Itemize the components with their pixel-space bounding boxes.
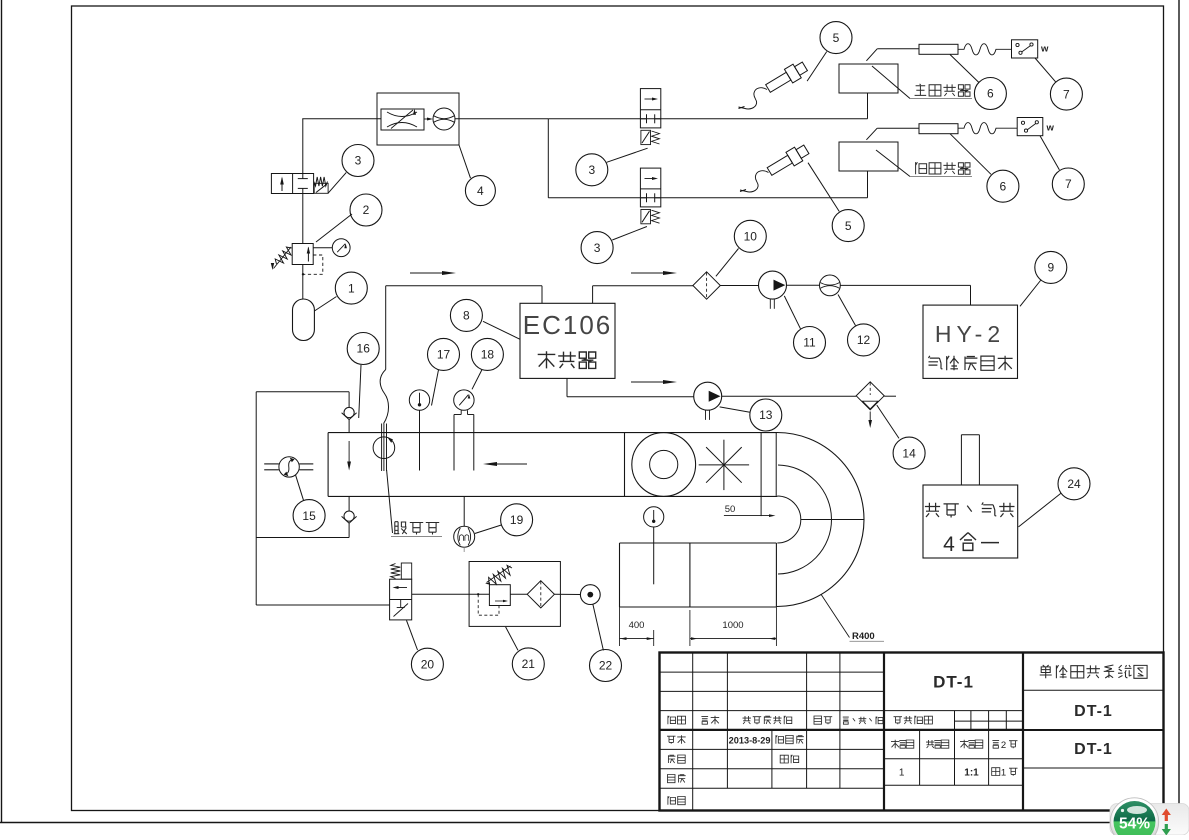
leader callout 20 [407,620,418,650]
svg-text:54%: 54% [1119,816,1150,833]
spark exciter box 7b [1017,118,1043,136]
sub burner label leader [876,150,910,177]
flow arrow A [410,272,452,274]
check valve 16 upper [348,392,350,408]
svg-text:3: 3 [588,163,595,177]
title block right lines [1023,689,1164,691]
node callout 21 [512,648,544,680]
impeller star [699,464,749,466]
wire pump11-meter12 [787,284,820,286]
node callout 3 [342,145,374,177]
svg-text:HY-2: HY-2 [935,321,1005,347]
filter of 21 [527,581,554,608]
main burner box [839,64,898,93]
wire filter10-pump11 [720,285,758,287]
wire loop mid return [256,537,349,539]
svg-text:6: 6 [1000,179,1007,193]
wire loop bottom to valve 20 [256,604,389,606]
node callout 17 [428,338,460,370]
node callout 6 [987,170,1019,202]
node callout 4 [465,176,495,206]
label sampling tube leader [387,470,393,533]
leader callout 5b [808,163,839,212]
leader callout 14 [877,405,899,438]
regulator 2 spring [275,247,291,264]
node callout 22 [590,650,622,682]
node callout 7 [1050,78,1082,110]
leader callout 7a [1035,58,1056,82]
regulator 2 pilot dashed [304,255,323,274]
wire pipe1 horizontal left part [302,118,381,120]
node callout 3 [576,154,608,186]
valve 3a body [271,174,313,194]
igniter resistor 6b [919,124,958,134]
valve 20 arrow [395,587,407,589]
valve 3b spring [652,131,660,144]
valve 3c arrow [645,178,656,180]
wire pipe2 [548,197,867,199]
label drawing title [1040,665,1052,678]
filter 10 [693,272,720,299]
valve 20 lower cell [394,604,409,617]
sampling tube swirl circle [373,437,395,459]
svg-text:24: 24 [1067,477,1081,491]
duct flow arrow [487,463,527,465]
flow valve 19 [463,496,465,526]
spark plug 5a [764,59,809,95]
igniter resistor 6a [919,44,958,54]
leader callout 1 [314,297,336,312]
gauge of regulator 2 [332,239,350,257]
duct section divider [624,433,626,497]
svg-text:w: w [1046,123,1055,134]
sheet bottom edge [0,822,1180,824]
valve 3a spring [314,177,328,186]
igniter coil 6b [958,123,1017,134]
node callout 24 [1058,468,1090,500]
leader callout 9 [1020,280,1041,306]
pump 13 [694,382,722,410]
svg-text:4: 4 [477,184,484,198]
leader callout 8 [483,321,520,339]
valve 3c body [640,168,660,207]
leader callout 17 [432,370,439,406]
node callout 2 [350,194,382,226]
valve 3b blocked ports [646,114,648,123]
label shenhe row [668,775,676,783]
wire drop to sub burner [867,171,869,198]
leader callout 3a [328,173,346,194]
svg-text:16: 16 [357,342,371,356]
leader callout 11 [784,296,800,329]
node callout 7 [1052,168,1084,200]
svg-text:1000: 1000 [722,620,743,631]
leader callout 6b [950,134,991,175]
main burner label leader [872,66,910,99]
label main burner text [915,84,927,96]
svg-text:9: 9 [1047,261,1054,275]
wire branch down to pipe2 [547,119,549,198]
node callout 3 [581,232,613,264]
wire pump13-filter14 [722,395,857,397]
pilot dashed of 21 [478,594,499,615]
duct walls [328,432,777,434]
label row biaoji [668,716,676,724]
sub burner box [839,142,898,171]
spring of 21 [489,565,512,584]
svg-text:5: 5 [833,31,840,45]
ball flowmeter of unit 4 [433,108,455,130]
svg-text:2: 2 [1001,740,1006,751]
ball meter 12 [820,275,841,296]
svg-text:7: 7 [1063,87,1070,101]
leader callout 4 [459,145,471,178]
valve 3a blocked ports [302,174,304,179]
svg-text:DT-1: DT-1 [1074,703,1113,720]
thermometer lower [644,507,664,527]
svg-text:20: 20 [421,657,435,671]
check valve lower [348,496,350,511]
leader callout 13 [720,407,750,412]
label sampling tube text [394,522,407,534]
filter-regulator 21 enclosure [469,562,560,627]
leader callout 16 [359,365,361,418]
wire meter12 to HY-2 [840,284,970,286]
leader callout 12 [838,295,856,326]
wire gas riser x=302.8 [302,119,304,174]
svg-text:11: 11 [803,336,816,350]
label quantity weight scale pages [891,740,900,748]
node callout 16 [347,333,379,365]
regulator 2 gauge link [313,247,332,249]
node callout 1 [335,272,367,304]
pressure gauge 18 [454,390,474,410]
wire drop to main burner [867,93,869,119]
label condenser [538,351,556,368]
svg-text:1: 1 [899,768,905,779]
sensor 4in1 box [923,485,1018,558]
throttle valve of unit 4 [381,109,424,130]
svg-text:1: 1 [348,281,355,295]
igniter coil 6a [958,44,1012,55]
test point 22 [580,585,600,605]
valve 3a lever box [314,183,328,193]
svg-text:4: 4 [943,533,955,556]
svg-text:15: 15 [302,509,316,523]
svg-text:EC106: EC106 [523,310,613,340]
leader callout 7b [1040,136,1059,170]
flexible hose to sampling tube [380,370,388,424]
svg-text:2: 2 [363,203,370,217]
leader callout 3b [607,148,648,162]
wire pipe1 mid [455,118,548,120]
svg-text:18: 18 [481,348,495,362]
svg-text:50: 50 [725,504,736,515]
svg-text:12: 12 [857,333,871,347]
bend radial seam [801,519,864,521]
flow arrow B [631,272,673,274]
EC106 box [520,303,615,378]
svg-text:w: w [1040,44,1049,55]
gas cylinder 1 [293,299,315,341]
node callout 11 [794,327,826,359]
node callout 14 [893,437,925,469]
svg-text:17: 17 [437,348,451,362]
valve 20 body [390,579,412,620]
pump 11 [759,271,787,299]
leader callout 21 [506,627,518,650]
valve 20 pilot box [401,563,411,579]
valve 3b arrow [645,98,656,100]
svg-text:22: 22 [599,659,613,673]
thermometer 17 [409,390,429,410]
valve 3a arrow [281,178,283,191]
spark plug 5a cable [739,88,768,109]
svg-text:DT-1: DT-1 [1074,741,1113,758]
svg-text:R400: R400 [852,631,875,642]
bend middle vane [778,465,832,574]
leader callout 24 [1019,493,1061,527]
filter 14 water trap [856,382,884,410]
spark plug 5b cable [740,171,769,192]
node callout 20 [411,648,443,680]
node callout 12 [848,324,880,356]
wire loop left [255,392,257,605]
dim 1000 [689,610,691,646]
node callout 8 [450,299,482,331]
label sub burner text [916,162,927,174]
svg-text:5: 5 [845,219,852,233]
title block middle lines [884,710,1023,712]
wire filter14 outlet [884,395,896,397]
orifice sensor 15 [279,457,299,477]
dim 400 [619,607,621,646]
node callout 6 [974,78,1006,110]
zoom down arrow [1162,824,1171,836]
dim R400 leader [821,594,850,637]
valve 3b lever box [641,130,651,144]
label stage mark [894,717,903,725]
regulator 2 body [292,244,313,265]
valve 20 out port [412,593,469,595]
gauge 18 probe [460,410,462,414]
flow arrow C [631,381,673,383]
HY-2 box [923,305,1018,378]
svg-text:21: 21 [522,657,536,671]
leader callout 19 [475,525,502,534]
valve 3b body [640,89,660,128]
svg-text:6: 6 [987,87,994,101]
svg-text:3: 3 [594,241,601,255]
svg-text:3: 3 [355,154,362,168]
svg-text:19: 19 [510,513,524,527]
bend outer wall [777,433,864,607]
filter 14 drain arrow [869,412,871,425]
sub igniter wire [866,128,877,140]
zoom button sphere [1110,798,1158,840]
valve 3c blocked ports [646,193,648,202]
label temperature pressure [925,503,940,517]
node callout 5 [820,22,852,54]
leader callout 18 [472,370,482,389]
wire EC106 outlet top [592,286,594,304]
svg-text:1:1: 1:1 [964,768,979,779]
spark exciter box 7a [1012,40,1038,58]
sheet left edge [1,0,3,823]
node callout 19 [501,504,533,536]
svg-text:10: 10 [744,230,758,244]
valve 3c spring [652,210,660,223]
label sheji row [667,736,676,744]
svg-text:2013-8-29: 2013-8-29 [729,736,771,746]
flow unit 4 enclosure [377,93,459,145]
label jiaoyue row [668,755,675,763]
node callout 15 [293,500,325,532]
leader callout 6a [950,55,979,83]
node callout 13 [750,399,782,431]
wire 21 to 22 [554,593,580,595]
leader callout 3c [612,227,647,241]
wire loop top [256,391,349,393]
sensor 4in1 neck [960,435,962,485]
svg-text:DT-1: DT-1 [933,673,974,692]
spark plug 5b [765,142,810,178]
svg-text:7: 7 [1065,177,1072,191]
node callout 18 [471,338,503,370]
svg-text:13: 13 [759,408,773,422]
leader callout 2 [316,214,352,242]
svg-text:14: 14 [902,446,916,460]
valve 3c lever box [641,210,651,224]
wire EC106 outlet bottom [566,378,568,396]
title block thick dividers [883,653,885,811]
leader callout 5a [807,52,827,82]
leader callout 10 [716,249,739,277]
svg-text:8: 8 [463,309,470,323]
duct exit slot walls [760,433,762,516]
svg-text:1: 1 [1001,768,1006,779]
lower return box [620,542,777,544]
wire pipe1 right part [548,118,867,120]
label pizhun row [668,796,676,804]
title block outer border [660,653,1164,811]
duct inlet down arrow [348,441,350,466]
leader callout 22 [593,604,604,650]
zoom up arrow [1162,809,1171,822]
title block left table lines [660,671,885,673]
node callout 10 [734,220,766,252]
bend inner wall [777,496,801,543]
label gas analyzer [929,356,943,369]
node callout 9 [1035,251,1067,283]
leader callout 15 [296,475,304,501]
fan rotor [632,433,696,497]
wire EC106 inlet [541,286,543,304]
valve 20 spring [391,564,401,579]
main igniter wire [866,49,877,61]
sampling tube 16 triple lines [381,424,383,472]
sheet right edge [1178,0,1180,806]
svg-text:400: 400 [629,620,645,631]
regulator of 21 [489,585,510,606]
node callout 5 [832,210,864,242]
